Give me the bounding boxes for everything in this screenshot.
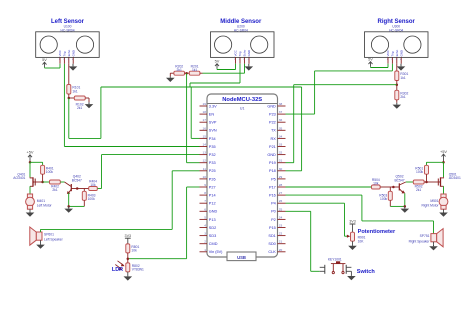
svg-text:AO3401: AO3401 xyxy=(449,176,461,180)
pushbutton switch KEY1001 xyxy=(320,262,352,274)
svg-text:37: 37 xyxy=(279,110,283,114)
svg-text:CLK: CLK xyxy=(268,250,276,254)
svg-text:2k1: 2k1 xyxy=(400,95,405,99)
svg-text:3.3V: 3.3V xyxy=(209,104,217,108)
junction Q402 base xyxy=(76,187,79,190)
svg-text:32: 32 xyxy=(279,151,283,155)
svg-text:100k: 100k xyxy=(46,170,54,174)
svg-text:2k1: 2k1 xyxy=(416,188,421,192)
U1 pin 36 P22 xyxy=(269,118,285,124)
U1 pin 29 P5 xyxy=(271,175,285,181)
svg-text:SD3: SD3 xyxy=(209,234,216,238)
ground below SP601 xyxy=(40,240,42,243)
svg-text:100k: 100k xyxy=(380,197,388,201)
motor M401 xyxy=(26,194,53,209)
svg-text:NodeMCU-32S: NodeMCU-32S xyxy=(222,97,262,103)
U1 pin 27 P16 xyxy=(269,191,285,197)
svg-text:RX: RX xyxy=(271,137,277,141)
U1 pin 14 P35 xyxy=(200,143,216,149)
svg-text:28: 28 xyxy=(279,183,283,187)
U1 pin 31 P19 xyxy=(269,159,285,165)
Right Sensor title xyxy=(378,19,416,32)
wire P27 to LDR divider xyxy=(128,187,200,259)
5V supply symbol at U100 xyxy=(42,57,47,67)
U1 pin 38 GND xyxy=(267,102,285,108)
junction gate node left xyxy=(41,181,44,184)
svg-text:P32: P32 xyxy=(209,153,216,157)
svg-text:GND: GND xyxy=(267,153,276,157)
Middle Sensor title xyxy=(220,19,262,32)
svg-text:M501: M501 xyxy=(430,199,438,203)
wire +5V rail to Q401 and R401 xyxy=(30,162,43,177)
resistor R401 xyxy=(41,165,54,182)
ground at switch xyxy=(350,271,352,275)
svg-text:19: 19 xyxy=(203,102,207,106)
resistor R102 xyxy=(69,96,89,110)
svg-text:BC547: BC547 xyxy=(72,178,82,182)
U1 pin 3 SD3 xyxy=(200,232,217,238)
svg-text:11: 11 xyxy=(203,167,206,171)
svg-text:2k1: 2k1 xyxy=(177,68,182,72)
U1 pin 34 RX xyxy=(271,134,286,140)
U1 pin 17 SVP xyxy=(200,118,217,124)
svg-text:+5V: +5V xyxy=(26,150,33,155)
U100 pin 3 Echo xyxy=(67,49,71,63)
ground at R102 xyxy=(85,102,94,108)
svg-text:VT83N1: VT83N1 xyxy=(132,268,144,272)
svg-text:P19: P19 xyxy=(269,161,276,165)
ground at U100 GND pin xyxy=(69,64,78,71)
svg-text:SD0: SD0 xyxy=(268,242,275,246)
svg-text:Trig: Trig xyxy=(63,51,67,56)
svg-text:VCC: VCC xyxy=(386,50,390,56)
svg-text:Echo: Echo xyxy=(243,49,247,56)
U1 pin 30 P18 xyxy=(269,167,285,173)
svg-text:1: 1 xyxy=(204,248,206,252)
svg-text:P13: P13 xyxy=(209,218,216,222)
U1 pin 23 P15 xyxy=(269,224,285,230)
wire 5V to U100 VCC xyxy=(45,64,61,68)
svg-text:35: 35 xyxy=(279,126,283,130)
wire +5V rail to Q501 and R501 xyxy=(427,162,444,177)
svg-text:Vin (5V): Vin (5V) xyxy=(209,250,223,254)
ultrasonic sensor U100 HC-SR04 body xyxy=(36,32,99,58)
potentiometer R901 xyxy=(347,229,396,243)
svg-text:Left Speaker: Left Speaker xyxy=(44,237,64,241)
U1 pin 19 3.3V xyxy=(200,102,218,108)
wire right divider junction to P19 xyxy=(286,85,397,163)
ground below M501 xyxy=(443,209,445,211)
wire Q502 collector to R502 xyxy=(406,181,414,183)
speaker SP601 xyxy=(30,227,64,245)
svg-text:2k1: 2k1 xyxy=(52,188,57,192)
svg-text:10K: 10K xyxy=(358,239,365,243)
svg-text:SP751: SP751 xyxy=(420,234,430,238)
U100 pin 1 VCC xyxy=(58,50,62,64)
wire middle divider junction to P33 xyxy=(187,73,200,163)
svg-text:P23: P23 xyxy=(269,113,276,117)
svg-text:22: 22 xyxy=(279,232,283,236)
svg-text:P15: P15 xyxy=(269,226,276,230)
U1 pin 10 P26 xyxy=(200,175,216,181)
U300 pin 4 GND xyxy=(399,50,403,64)
svg-text:SD2: SD2 xyxy=(209,226,216,230)
U1 pin 2 CMD xyxy=(200,240,218,246)
svg-text:Echo: Echo xyxy=(67,49,71,56)
U200 pin 4 GND xyxy=(247,50,251,64)
U1 pin 21 SD0 xyxy=(268,240,285,246)
5V supply symbol at U200 xyxy=(215,59,220,69)
ground at U200 GND pin xyxy=(245,64,254,71)
ultrasonic sensor U200 HC-SR04 body xyxy=(211,32,275,58)
svg-text:P34: P34 xyxy=(209,137,216,141)
svg-text:P2: P2 xyxy=(271,218,276,222)
wire P0 to switch xyxy=(286,211,320,271)
U200 pin 2 Trig xyxy=(238,51,242,64)
svg-text:4: 4 xyxy=(204,224,206,228)
U1 pin 20 CLK xyxy=(268,248,285,254)
svg-text:8: 8 xyxy=(204,191,206,195)
svg-text:P21: P21 xyxy=(269,145,276,149)
wire P17 to R504 xyxy=(286,186,372,188)
svg-text:100k: 100k xyxy=(88,197,96,201)
wire left echo to P34 xyxy=(69,64,302,139)
wire Q402 emitter to ground xyxy=(69,193,85,207)
svg-text:13: 13 xyxy=(203,151,207,155)
svg-text:38: 38 xyxy=(279,102,283,106)
U1 pin 26 P4 xyxy=(271,199,285,205)
U1 pin 16 SVN xyxy=(200,126,217,132)
svg-text:Echo: Echo xyxy=(395,49,399,56)
junction middle echo divider xyxy=(185,72,188,75)
svg-text:SVP: SVP xyxy=(209,121,217,125)
ground at Q402 emitter xyxy=(64,206,73,212)
junction emitter ground right xyxy=(404,205,407,208)
svg-text:P33: P33 xyxy=(209,161,216,165)
U200 pin 1 VCC xyxy=(234,50,238,64)
ground below R901 xyxy=(352,241,354,244)
svg-text:SD1: SD1 xyxy=(268,234,275,238)
U1 pin 8 P14 xyxy=(200,191,216,197)
svg-text:M401: M401 xyxy=(37,199,45,203)
svg-text:1k1: 1k1 xyxy=(192,68,197,72)
U1 pin 32 GND xyxy=(267,151,285,157)
svg-text:P27: P27 xyxy=(209,185,216,189)
ground at R302 xyxy=(393,103,402,109)
svg-text:BC547: BC547 xyxy=(394,178,404,182)
svg-text:P5: P5 xyxy=(271,177,276,181)
svg-text:P22: P22 xyxy=(269,121,276,125)
svg-text:10k: 10k xyxy=(90,183,96,187)
svg-text:TX: TX xyxy=(271,129,276,133)
svg-text:24: 24 xyxy=(279,215,283,219)
resistor R504 xyxy=(372,178,394,189)
resistor R801 xyxy=(126,244,140,259)
speaker SP751 xyxy=(409,229,444,247)
3V3 supply at LDR divider xyxy=(125,234,132,244)
ground below M401 xyxy=(29,209,31,211)
svg-text:Left Motor: Left Motor xyxy=(37,203,53,207)
svg-text:14: 14 xyxy=(203,143,207,147)
wire P32 to R404 xyxy=(97,155,199,189)
svg-text:15: 15 xyxy=(203,134,207,138)
transistor Q502 BC547 NPN xyxy=(393,175,405,194)
svg-text:VCC: VCC xyxy=(58,50,62,56)
svg-text:SP601: SP601 xyxy=(44,232,54,236)
svg-text:Q502: Q502 xyxy=(395,175,403,179)
wire left trig to P35 xyxy=(64,64,199,147)
svg-text:1k1: 1k1 xyxy=(400,76,405,80)
svg-text:Right Motor: Right Motor xyxy=(422,203,440,207)
module U1 NodeMCU-32S body xyxy=(207,94,278,257)
transistor Q402 BC547 NPN xyxy=(65,175,83,194)
wire Q401 drain to motor xyxy=(29,186,31,194)
svg-text:GND: GND xyxy=(209,210,218,214)
svg-text:P26: P26 xyxy=(209,177,216,181)
svg-text:GND: GND xyxy=(399,50,403,56)
svg-text:10: 10 xyxy=(203,175,207,179)
resistor R502 xyxy=(413,180,426,192)
resistor R101 xyxy=(67,64,81,98)
svg-text:30: 30 xyxy=(279,167,283,171)
U1 pin 5 P13 xyxy=(200,215,216,221)
svg-text:USB: USB xyxy=(237,255,246,260)
svg-text:P25: P25 xyxy=(209,169,216,173)
junction left echo divider xyxy=(68,97,71,100)
svg-text:P4: P4 xyxy=(271,202,276,206)
U1 pin 33 P21 xyxy=(269,143,285,149)
U1 pin 4 SD2 xyxy=(200,224,217,230)
svg-text:31: 31 xyxy=(279,159,283,163)
svg-text:Trig: Trig xyxy=(391,51,395,56)
svg-text:6: 6 xyxy=(204,207,206,211)
U1 pin 18 EN xyxy=(200,110,215,116)
svg-text:36: 36 xyxy=(279,118,283,122)
junction +5V rail left xyxy=(29,161,32,164)
svg-text:KEY1001: KEY1001 xyxy=(328,258,342,262)
svg-text:+5V: +5V xyxy=(440,149,447,154)
U1 pin 37 P23 xyxy=(269,110,285,116)
resistor R301 xyxy=(395,64,409,85)
resistor R503 xyxy=(379,187,392,206)
resistor R501 xyxy=(415,165,428,182)
svg-text:34: 34 xyxy=(279,134,283,138)
junction LDR divider xyxy=(127,257,130,260)
wire P25 to left speaker xyxy=(41,171,200,230)
svg-text:U200: U200 xyxy=(237,24,245,28)
junction Q502 base xyxy=(392,186,395,189)
svg-text:U100: U100 xyxy=(64,24,72,28)
U1 pin 1 Vin (5V) xyxy=(200,248,224,254)
resistor R202 xyxy=(170,64,186,75)
svg-text:5V: 5V xyxy=(368,57,373,62)
Left Sensor title xyxy=(51,19,85,32)
svg-text:Trig: Trig xyxy=(238,51,242,56)
svg-text:2k1: 2k1 xyxy=(77,106,82,110)
svg-text:20: 20 xyxy=(279,248,283,252)
wire P23 to right sensor trig xyxy=(286,64,393,114)
svg-text:P18: P18 xyxy=(269,169,276,173)
U1 pin 28 P17 xyxy=(269,183,285,189)
wire P4 to potentiometer wiper xyxy=(286,203,349,236)
wire Q502 emitter to ground xyxy=(390,193,405,206)
svg-text:1k1: 1k1 xyxy=(72,89,77,93)
U300 pin 1 VCC xyxy=(386,50,390,64)
USB connector of U1 xyxy=(227,252,256,261)
U1 pin 35 TX xyxy=(271,126,286,132)
svg-text:EN: EN xyxy=(209,113,215,117)
U1 pin 6 GND xyxy=(200,207,218,213)
+5V supply right motor xyxy=(440,149,447,163)
ultrasonic sensor U300 HC-SR04 body xyxy=(365,32,429,58)
svg-text:7: 7 xyxy=(204,199,206,203)
transistor Q401 AO3401 P-MOSFET xyxy=(13,172,42,186)
ground at U300 GND pin xyxy=(397,64,406,71)
3V3 supply at potentiometer xyxy=(349,220,356,233)
svg-text:AO3401: AO3401 xyxy=(13,176,25,180)
wire middle echo pin to R201 xyxy=(203,64,245,73)
motor M501 xyxy=(422,194,448,209)
svg-text:LDR: LDR xyxy=(112,267,123,273)
resistor R201 xyxy=(187,64,203,75)
ground at R202 xyxy=(169,73,171,76)
svg-text:10k: 10k xyxy=(373,182,379,186)
svg-text:Potentiometer: Potentiometer xyxy=(358,229,396,235)
junction right echo divider xyxy=(396,83,399,86)
photoresistor R802 LDR xyxy=(115,259,144,272)
svg-text:12: 12 xyxy=(203,159,207,163)
resistor R402 xyxy=(43,180,65,192)
svg-text:GND: GND xyxy=(247,50,251,56)
svg-text:P16: P16 xyxy=(269,194,276,198)
U200 pin 3 Echo xyxy=(243,49,247,63)
wire P16 to right speaker xyxy=(286,195,434,234)
svg-text:VCC: VCC xyxy=(234,50,238,56)
U100 pin 4 GND xyxy=(71,50,75,64)
svg-text:29: 29 xyxy=(279,175,283,179)
svg-text:23: 23 xyxy=(279,224,283,228)
svg-text:9: 9 xyxy=(204,183,206,187)
wire left speaker pin xyxy=(40,229,42,232)
U1 pin 12 P33 xyxy=(200,159,216,165)
svg-text:Right Speaker: Right Speaker xyxy=(409,240,431,244)
U1 pin 9 P27 xyxy=(200,183,216,189)
svg-text:27: 27 xyxy=(279,191,283,195)
svg-text:16: 16 xyxy=(203,126,207,130)
U100 pin 2 Trig xyxy=(63,51,67,64)
U1 pin 7 P12 xyxy=(200,199,216,205)
svg-text:2: 2 xyxy=(204,240,206,244)
ground below SP751 xyxy=(433,242,435,245)
U300 pin 2 Trig xyxy=(391,51,395,64)
wire Q501 drain to motor xyxy=(443,186,445,194)
svg-text:5V: 5V xyxy=(42,57,47,62)
U1 pin 11 P25 xyxy=(200,167,216,173)
svg-text:U300: U300 xyxy=(392,24,400,28)
svg-text:Switch: Switch xyxy=(357,269,376,275)
U1 pin 22 SD1 xyxy=(268,232,285,238)
ground below R802 xyxy=(127,272,129,276)
wire base node to R404 xyxy=(77,188,89,190)
svg-text:5: 5 xyxy=(204,215,206,219)
svg-text:18: 18 xyxy=(203,110,207,114)
svg-text:Q402: Q402 xyxy=(73,175,81,179)
wire 5V to U200 VCC xyxy=(217,64,236,70)
svg-text:3V3: 3V3 xyxy=(349,220,356,224)
svg-text:3: 3 xyxy=(204,232,206,236)
resistor R404 xyxy=(89,180,98,191)
resistor R403 xyxy=(82,189,95,207)
svg-text:U1: U1 xyxy=(240,107,245,111)
junction gate node right xyxy=(425,181,428,184)
svg-text:100k: 100k xyxy=(416,170,424,174)
svg-text:P35: P35 xyxy=(209,145,216,149)
svg-text:5V: 5V xyxy=(215,59,220,64)
wire trig net to P18 xyxy=(286,87,302,171)
svg-text:P17: P17 xyxy=(269,185,276,189)
U1 pin 15 P34 xyxy=(200,134,216,140)
svg-text:17: 17 xyxy=(203,118,207,122)
U300 pin 3 Echo xyxy=(395,49,399,63)
transistor Q501 AO3401 P-MOSFET xyxy=(427,172,461,186)
svg-text:33: 33 xyxy=(279,143,283,147)
wire 5V to U300 VCC xyxy=(371,64,389,68)
svg-text:SVN: SVN xyxy=(209,129,217,133)
svg-text:21: 21 xyxy=(279,240,283,244)
U1 pin 25 P0 xyxy=(271,207,285,213)
resistor R302 xyxy=(395,85,409,103)
svg-text:25: 25 xyxy=(279,207,283,211)
svg-text:CMD: CMD xyxy=(209,242,218,246)
ground at Q502 emitter xyxy=(401,206,410,212)
U1 pin 24 P2 xyxy=(271,215,285,221)
svg-text:P14: P14 xyxy=(209,194,216,198)
+5V supply left motor xyxy=(26,150,33,163)
svg-text:GND: GND xyxy=(267,104,276,108)
5V supply symbol at U300 xyxy=(368,57,373,67)
svg-text:10k: 10k xyxy=(131,249,137,253)
U1 pin 13 P32 xyxy=(200,151,216,157)
svg-text:GND: GND xyxy=(71,50,75,56)
svg-text:26: 26 xyxy=(279,199,283,203)
svg-text:P12: P12 xyxy=(209,202,216,206)
svg-text:P0: P0 xyxy=(271,210,276,214)
junction +5V rail right xyxy=(442,161,445,164)
junction emitter ground left xyxy=(67,205,70,208)
svg-text:3V3: 3V3 xyxy=(125,234,132,238)
